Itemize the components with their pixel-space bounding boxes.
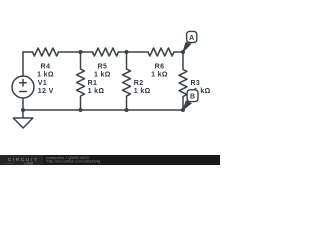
resistor R4 bbox=[33, 48, 59, 56]
wire left rail lower bbox=[22, 98, 24, 110]
svg-text:1 kΩ: 1 kΩ bbox=[88, 88, 105, 95]
svg-text:1 kΩ: 1 kΩ bbox=[94, 71, 111, 78]
svg-text:1 kΩ: 1 kΩ bbox=[134, 88, 151, 95]
svg-text:V1: V1 bbox=[38, 80, 47, 87]
node B box bbox=[187, 90, 198, 102]
watermark bar bbox=[0, 155, 220, 165]
wire top rail between R4 and R5 bbox=[59, 51, 93, 53]
watermark logo chip bbox=[0, 155, 43, 165]
junction dot node B bbox=[181, 108, 185, 112]
resistor R5 bbox=[93, 48, 119, 56]
junction dot ground bbox=[21, 108, 25, 112]
wire top rail right segment bbox=[174, 51, 183, 53]
junction dot R1 bottom bbox=[79, 108, 83, 112]
node A box bbox=[187, 31, 197, 42]
svg-text:R6: R6 bbox=[155, 63, 165, 70]
svg-text:1 kΩ: 1 kΩ bbox=[151, 71, 168, 78]
svg-text:B: B bbox=[190, 94, 195, 101]
wire left rail upper bbox=[22, 52, 24, 76]
wire top rail between R5 and R6 bbox=[119, 51, 149, 53]
ground bbox=[13, 110, 33, 128]
svg-text:1 kΩ: 1 kΩ bbox=[37, 71, 54, 78]
svg-text:LAB: LAB bbox=[25, 160, 34, 165]
svg-text:A: A bbox=[189, 35, 194, 42]
svg-text:R4: R4 bbox=[41, 63, 51, 70]
svg-text:R2: R2 bbox=[134, 80, 144, 87]
svg-text:R1: R1 bbox=[88, 80, 98, 87]
junction dot node A bbox=[181, 50, 185, 54]
resistor R2 bbox=[123, 52, 131, 110]
resistor R1 bbox=[77, 52, 85, 110]
junction dot R2 bottom bbox=[125, 108, 129, 112]
voltage source V1 bbox=[12, 76, 34, 98]
svg-text:12 V: 12 V bbox=[38, 88, 54, 95]
wire top rail left segment bbox=[23, 51, 33, 53]
resistor R6 bbox=[148, 48, 174, 56]
svg-text:R5: R5 bbox=[98, 63, 108, 70]
wire bottom rail bbox=[23, 109, 183, 111]
resistor R3 bbox=[179, 52, 187, 110]
svg-text:http://circuitlab.com/c/by5a4g: http://circuitlab.com/c/by5a4g bbox=[47, 160, 101, 164]
junction dot R2 top bbox=[125, 50, 129, 54]
svg-text:–~–~: –~–~ bbox=[5, 161, 14, 165]
svg-text:R3: R3 bbox=[191, 80, 201, 87]
node A pointer tail bbox=[183, 43, 191, 52]
node B pointer tail bbox=[183, 101, 191, 110]
junction dot R1 top bbox=[79, 50, 83, 54]
